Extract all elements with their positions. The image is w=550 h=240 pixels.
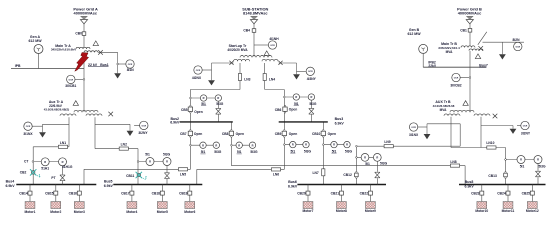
svg-text:5I3G: 5I3G <box>380 162 388 166</box>
svg-text:CB9: CB9 <box>275 132 282 136</box>
svg-text:22kV: 22kV <box>428 64 437 68</box>
svg-text:R: R <box>166 160 168 164</box>
svg-text:LN4: LN4 <box>269 78 275 82</box>
svg-text:8I2N: 8I2N <box>513 38 521 42</box>
svg-text:6.9kV: 6.9kV <box>335 121 345 125</box>
svg-text:4I2NX: 4I2NX <box>192 76 202 80</box>
svg-text:Motor12: Motor12 <box>526 209 539 213</box>
svg-text:Motor10: Motor10 <box>475 209 488 213</box>
svg-text:CB6: CB6 <box>275 108 282 112</box>
svg-text:LN1: LN1 <box>60 141 66 145</box>
svg-text:5I1: 5I1 <box>332 149 337 153</box>
svg-text:345/22kV,610.6kV: 345/22kV,610.6kV <box>51 48 77 52</box>
svg-text:40000MVAsc: 40000MVAsc <box>74 11 98 16</box>
svg-text:R: R <box>217 96 219 100</box>
svg-text:5I3G: 5I3G <box>163 152 171 156</box>
svg-text:CB16: CB16 <box>69 191 78 195</box>
svg-text:OCR: OCR <box>411 127 416 129</box>
svg-text:5I3G: 5I3G <box>538 164 546 168</box>
svg-text:3I2NY: 3I2NY <box>521 131 531 135</box>
svg-text:5I1: 5I1 <box>294 102 299 106</box>
svg-text:Bus1: Bus1 <box>100 63 109 67</box>
svg-text:Motor9: Motor9 <box>365 209 376 213</box>
svg-text:CB5: CB5 <box>181 108 188 112</box>
svg-text:CB24: CB24 <box>497 191 506 195</box>
svg-text:Motor5: Motor5 <box>157 210 168 214</box>
svg-text:R: R <box>62 160 64 164</box>
svg-text:OCR: OCR <box>26 126 31 128</box>
svg-text:CB10: CB10 <box>312 132 321 136</box>
svg-text:Open: Open <box>289 132 297 136</box>
svg-text:OCR: OCR <box>141 125 146 127</box>
svg-text:OCR: OCR <box>515 46 520 48</box>
svg-text:51H1G: 51H1G <box>62 165 73 169</box>
svg-text:Motor1: Motor1 <box>25 210 36 214</box>
svg-text:5I3G: 5I3G <box>309 102 317 106</box>
svg-text:R: R <box>520 158 522 162</box>
svg-text:CT: CT <box>24 160 28 164</box>
svg-text:OCR: OCR <box>523 125 528 127</box>
svg-text:PT: PT <box>51 176 55 180</box>
svg-text:CB21: CB21 <box>331 191 340 195</box>
svg-text:612 MW: 612 MW <box>28 39 42 43</box>
svg-text:5I3G: 5I3G <box>250 150 258 154</box>
svg-text:Open: Open <box>194 132 202 136</box>
svg-text:LN3: LN3 <box>244 78 250 82</box>
svg-text:CB4: CB4 <box>243 29 250 33</box>
svg-text:8I1N: 8I1N <box>127 68 135 72</box>
svg-text:R: R <box>295 95 297 99</box>
svg-text:3I1NX: 3I1NX <box>409 133 419 137</box>
svg-text:Motor2: Motor2 <box>50 210 61 214</box>
svg-text:R: R <box>346 143 348 147</box>
svg-text:CB22: CB22 <box>360 191 369 195</box>
svg-text:4I1NH: 4I1NH <box>269 37 279 41</box>
svg-text:CB2: CB2 <box>20 170 27 174</box>
svg-text:8148.8MVAsc: 8148.8MVAsc <box>243 11 268 16</box>
svg-text:51H1: 51H1 <box>41 166 49 170</box>
svg-text:CB25: CB25 <box>522 191 531 195</box>
svg-text:CB12: CB12 <box>343 173 352 177</box>
svg-text:Bus4: Bus4 <box>6 180 15 184</box>
svg-text:Bus7: Bus7 <box>479 63 488 67</box>
svg-text:Motor6: Motor6 <box>184 210 195 214</box>
svg-text:LN2: LN2 <box>121 143 127 147</box>
svg-text:R: R <box>252 143 254 147</box>
svg-text:LN9: LN9 <box>384 140 390 144</box>
svg-text:R: R <box>238 143 240 147</box>
svg-text:CB7: CB7 <box>180 132 187 136</box>
svg-text:5I3G: 5I3G <box>304 149 312 153</box>
svg-text:6.9kV: 6.9kV <box>5 184 15 188</box>
svg-text:OCR: OCR <box>270 45 275 47</box>
svg-text:Motor11: Motor11 <box>502 209 515 213</box>
svg-text:40/20/20 MVA: 40/20/20 MVA <box>227 48 248 52</box>
svg-text:CB19: CB19 <box>179 191 188 195</box>
svg-text:5I1: 5I1 <box>201 102 206 106</box>
svg-text:3I2NY: 3I2NY <box>138 131 148 135</box>
svg-text:5I3G: 5I3G <box>345 149 353 153</box>
svg-text:Motor3: Motor3 <box>74 210 85 214</box>
svg-text:22 kV: 22 kV <box>88 63 98 67</box>
svg-text:R: R <box>305 143 307 147</box>
svg-text:2: 2 <box>145 176 147 180</box>
svg-text:OCR: OCR <box>128 64 133 66</box>
svg-text:5I1: 5I1 <box>291 149 296 153</box>
svg-text:R: R <box>364 156 366 160</box>
svg-text:R: R <box>215 143 217 147</box>
svg-text:3I1NX: 3I1NX <box>23 132 33 136</box>
svg-text:R: R <box>310 95 312 99</box>
svg-text:CB20: CB20 <box>297 191 306 195</box>
svg-text:LN8: LN8 <box>450 160 456 164</box>
svg-text:R: R <box>44 160 46 164</box>
svg-text:LN10: LN10 <box>486 141 494 145</box>
svg-text:CB15: CB15 <box>45 191 54 195</box>
svg-text:6.9kV: 6.9kV <box>104 184 114 188</box>
svg-text:CB14: CB14 <box>19 191 28 195</box>
svg-text:Open: Open <box>194 110 202 114</box>
svg-text:OCR: OCR <box>196 70 201 72</box>
svg-text:R: R <box>202 143 204 147</box>
svg-text:CB18: CB18 <box>152 191 161 195</box>
svg-text:CB8: CB8 <box>222 132 229 136</box>
svg-text:43.0/26.68/26.68(S): 43.0/26.68/26.68(S) <box>44 108 70 112</box>
svg-text:40000MVAsc: 40000MVAsc <box>458 11 482 16</box>
svg-text:Open: Open <box>328 132 336 136</box>
svg-text:CB23: CB23 <box>471 191 480 195</box>
svg-text:OCR: OCR <box>454 77 459 79</box>
svg-text:6.9kV: 6.9kV <box>288 184 298 188</box>
svg-text:Bus8: Bus8 <box>465 180 474 184</box>
svg-text:5I1: 5I1 <box>201 150 206 154</box>
svg-text:LN7: LN7 <box>312 171 318 175</box>
svg-text:Motor8: Motor8 <box>336 209 347 213</box>
svg-text:Open: Open <box>236 132 244 136</box>
svg-text:CB11: CB11 <box>126 174 134 178</box>
svg-text:6.9kV: 6.9kV <box>465 185 475 189</box>
svg-text:CB1: CB1 <box>460 28 467 32</box>
svg-text:OCR: OCR <box>308 71 313 73</box>
svg-text:R: R <box>203 96 205 100</box>
svg-text:5I3G: 5I3G <box>216 102 224 106</box>
svg-text:Open: Open <box>289 108 297 112</box>
svg-text:CB13: CB13 <box>488 174 497 178</box>
svg-text:5I1: 5I1 <box>237 150 242 154</box>
svg-text:R: R <box>376 156 378 160</box>
svg-text:5I1: 5I1 <box>145 152 150 156</box>
svg-text:R: R <box>292 143 294 147</box>
svg-text:MVA: MVA <box>446 50 454 54</box>
svg-text:MVA: MVA <box>440 108 448 112</box>
svg-text:4I3NY: 4I3NY <box>307 77 317 81</box>
svg-text:CB0: CB0 <box>75 32 82 36</box>
svg-text:Bus6: Bus6 <box>288 180 297 184</box>
svg-text:R: R <box>537 158 539 162</box>
svg-text:5I1: 5I1 <box>365 162 370 166</box>
svg-text:6.9kV: 6.9kV <box>170 121 180 125</box>
svg-text:3I0CB1: 3I0CB1 <box>65 84 76 88</box>
svg-text:Motor4: Motor4 <box>126 210 137 214</box>
svg-text:R: R <box>149 160 151 164</box>
svg-text:LN6: LN6 <box>273 172 279 176</box>
svg-text:5I1: 5I1 <box>520 165 525 169</box>
svg-text:OCR: OCR <box>68 79 73 81</box>
svg-text:IPB: IPB <box>15 64 21 68</box>
svg-text:Bus5: Bus5 <box>104 180 113 184</box>
svg-text:LN5: LN5 <box>180 172 186 176</box>
svg-text:3I0CB2: 3I0CB2 <box>450 84 461 88</box>
svg-text:Motor7: Motor7 <box>303 209 314 213</box>
svg-text:612 MW: 612 MW <box>407 32 421 36</box>
svg-text:CB17: CB17 <box>121 191 130 195</box>
svg-text:R: R <box>333 143 335 147</box>
svg-text:1: 1 <box>39 173 41 177</box>
svg-text:5I3G: 5I3G <box>214 150 222 154</box>
